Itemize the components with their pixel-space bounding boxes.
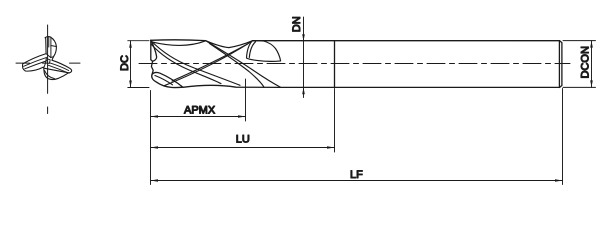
left extension line under tip [150,91,152,185]
top silhouette sweep arc [151,39,206,42]
svg-text:DCON: DCON [580,46,592,78]
DC top extension line [128,40,149,42]
end view center chisel [44,59,50,67]
ascending edge 2 [164,42,251,86]
DC dimension line [130,41,132,88]
end view right wing internal lines [49,63,69,73]
end view vertical centerline [47,25,49,114]
neck/shank bottom edge [280,86,560,88]
DCON dimension line [591,41,593,88]
DN arrow up to bottom edge [302,87,305,94]
DN dimension line [303,17,305,98]
dimension LU [151,146,335,149]
dimension DC [128,41,149,88]
DC bottom extension line [128,87,149,89]
descending band 1 upper [151,41,240,86]
LF right extension line [562,89,564,185]
DCON label [580,46,592,78]
DN label [291,16,303,32]
LF label [350,169,363,181]
svg-text:LF: LF [350,169,363,181]
end view bottom lobe internal line [45,71,55,79]
dimension LF [151,179,563,182]
svg-text:LU: LU [236,133,250,145]
descending band 1 lower [151,44,221,84]
svg-text:DN: DN [291,16,303,32]
APMX right extension line [245,79,247,121]
flute margin scallop [152,41,206,46]
flute helix lines [151,41,281,88]
DCON top extension line [563,40,596,42]
descending band 2 lower [210,44,265,88]
neck/shank top edge [252,40,559,42]
leaf inner line [155,76,173,85]
DN arrow down to top edge [302,34,305,41]
DC arrow down [129,81,132,88]
svg-text:DC: DC [119,55,131,71]
bottom silhouette scallops [183,85,280,87]
end view outline (3-flute face) [22,37,71,80]
DC arrow up [129,41,132,48]
end view top flute internal lines [46,37,56,58]
right wing lower edge [45,68,70,73]
tip face sliver edge [151,40,157,61]
end view left wing internal lines [24,57,48,69]
LU label [236,133,250,145]
APMX label [184,104,216,116]
bottom gash leaf [152,72,183,87]
DCON bottom extension line [563,86,596,88]
LU right extension line [334,89,336,153]
ascending edge 1 [172,44,248,81]
dimension APMX [151,115,246,118]
DC label [119,55,131,71]
dimension DCON [563,41,596,88]
runout lens [247,41,281,62]
side view tool outline: tip, flutes, neck, shank [151,40,562,88]
dimension DN [302,17,305,98]
DCON arrow down [590,80,593,87]
side view centerline [139,63,570,65]
descending band 2 upper [206,41,281,87]
svg-text:APMX: APMX [184,104,216,116]
tip face left edge [151,40,153,74]
shank end chamfer [560,41,562,88]
end view horizontal centerline [16,62,80,64]
runout lens inner line [249,42,255,58]
DCON arrow up [590,41,593,48]
top silhouette notch to neck [206,41,253,48]
shank boundary line [334,41,336,88]
